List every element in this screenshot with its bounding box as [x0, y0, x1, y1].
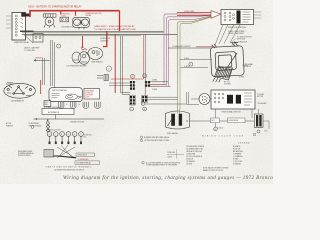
svg-text:GL. IGNITION SWITCH: GL. IGNITION SWITCH [237, 37, 252, 39]
svg-text:16 RED-BLUE: 16 RED-BLUE [100, 38, 110, 40]
svg-text:LEFT SIDE: LEFT SIDE [85, 94, 93, 96]
svg-text:16 RED: 16 RED [239, 77, 244, 79]
svg-text:16 RED: 16 RED [186, 164, 193, 166]
svg-text:20 BLUE: 20 BLUE [184, 66, 190, 68]
svg-text:16 RED-BLUE: 16 RED-BLUE [238, 41, 247, 43]
svg-text:(IGNITION FEED): (IGNITION FEED) [18, 155, 31, 157]
svg-text:FUEL GAUGE: FUEL GAUGE [167, 132, 179, 135]
svg-text:STARTER RELAY: STARTER RELAY [14, 41, 30, 44]
svg-text:14 BROWN: 14 BROWN [100, 41, 109, 43]
svg-text:16 RED 14 BRN: 16 RED 14 BRN [184, 11, 194, 13]
svg-text:VOLT: VOLT [45, 102, 49, 104]
svg-text:DISTRIBUTOR: DISTRIBUTOR [62, 27, 75, 29]
svg-text:Wiring diagram for the ignitio: Wiring diagram for the ignition, startin… [63, 176, 273, 181]
svg-text:L: L [144, 76, 145, 78]
svg-text:16 R: 16 R [265, 131, 268, 133]
svg-text:LIGHT BULB: LIGHT BULB [237, 39, 245, 41]
svg-text:F: F [131, 109, 132, 111]
svg-text:TO IGNITION: TO IGNITION [83, 135, 91, 137]
svg-text:TO HORN: TO HORN [257, 94, 264, 96]
svg-text:COIL: COIL [83, 137, 86, 139]
svg-text:ALTERNATOR: ALTERNATOR [48, 111, 60, 114]
svg-text:ASSY - BATTERY TO STARTING MOT: ASSY - BATTERY TO STARTING MOTOR RELAY [28, 6, 82, 9]
svg-text:W WHITE: W WHITE [233, 164, 242, 166]
svg-text:B: B [68, 134, 69, 136]
svg-text:18 GRN: 18 GRN [152, 89, 157, 91]
svg-text:ALTERNATOR: ALTERNATOR [12, 100, 25, 103]
svg-text:S: S [49, 134, 50, 136]
svg-text:REG: REG [45, 104, 48, 106]
svg-text:LEGEND: LEGEND [238, 142, 250, 144]
svg-text:OIL PRESSURE SENDER: OIL PRESSURE SENDER [67, 65, 88, 67]
svg-text:TEMP SENDER: TEMP SENDER [91, 61, 103, 63]
svg-text:COWL: COWL [85, 96, 90, 98]
svg-text:16 GREEN-RED: 16 GREEN-RED [78, 159, 90, 161]
svg-text:16 RED: 16 RED [184, 58, 189, 60]
svg-text:ENGINE GROUND: ENGINE GROUND [71, 121, 85, 123]
svg-text:16 RED-BLUE: 16 RED-BLUE [77, 155, 87, 157]
svg-text:TURN SIGNAL SWITCH: TURN SIGNAL SWITCH [221, 110, 241, 113]
svg-text:16 RED: 16 RED [152, 79, 157, 81]
svg-text:VIEW OF IGNITION SWITCH TERMIN: VIEW OF IGNITION SWITCH TERMINALS [46, 166, 92, 169]
svg-text:RELAY: RELAY [86, 14, 93, 17]
svg-text:TO STARTING MOTOR AND BATTERY: TO STARTING MOTOR AND BATTERY GRD [94, 28, 136, 31]
svg-text:16 RED-BLUE: 16 RED-BLUE [228, 120, 238, 122]
svg-text:TO GROUND: TO GROUND [24, 50, 36, 52]
svg-text:IGNITION SWITCH: IGNITION SWITCH [228, 27, 247, 29]
svg-text:16 Y-BLK: 16 Y-BLK [217, 128, 223, 130]
svg-text:WIRING COLOR CODE: WIRING COLOR CODE [202, 136, 244, 138]
svg-text:J: J [190, 64, 191, 66]
svg-text:16 GREEN-RED 14 BROWN: 16 GREEN-RED 14 BROWN [173, 46, 191, 48]
svg-text:18 GRN - RED STRIPE: 18 GRN - RED STRIPE [228, 33, 244, 35]
svg-text:COLUMN: COLUMN [224, 84, 231, 86]
svg-text:BUTTON: BUTTON [257, 96, 263, 98]
svg-text:CABLE ASSY - STARTING MOTOR RE: CABLE ASSY - STARTING MOTOR RELAY [94, 25, 135, 28]
